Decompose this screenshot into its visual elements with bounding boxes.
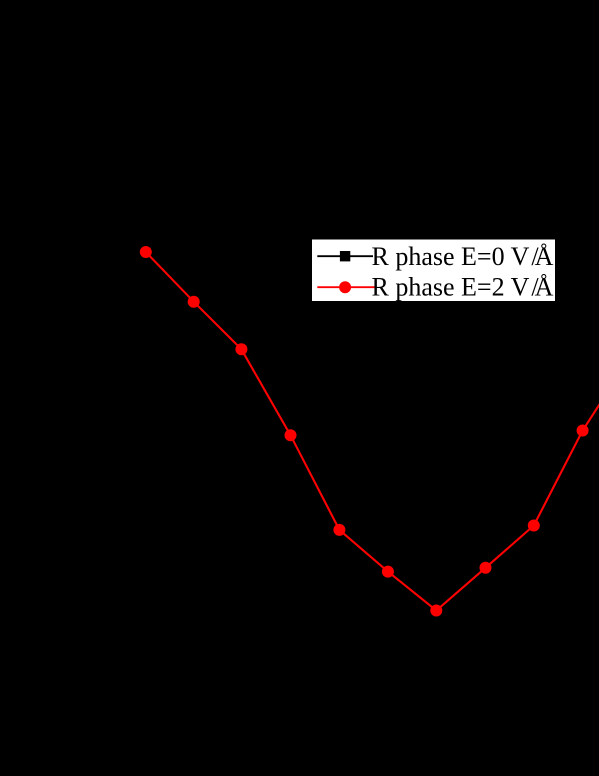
- legend entry 1: black line + square marker: [317, 255, 373, 257]
- legend box: [312, 239, 556, 302]
- red series markers: [140, 246, 589, 617]
- red series line (R phase E=2 V/A): [146, 252, 599, 611]
- svg-text:R phase E=2 V/Å: R phase E=2 V/Å: [372, 273, 554, 302]
- legend entry 2: red line + circle marker: [317, 286, 374, 288]
- svg-text:R phase E=0 V/Å: R phase E=0 V/Å: [372, 242, 554, 271]
